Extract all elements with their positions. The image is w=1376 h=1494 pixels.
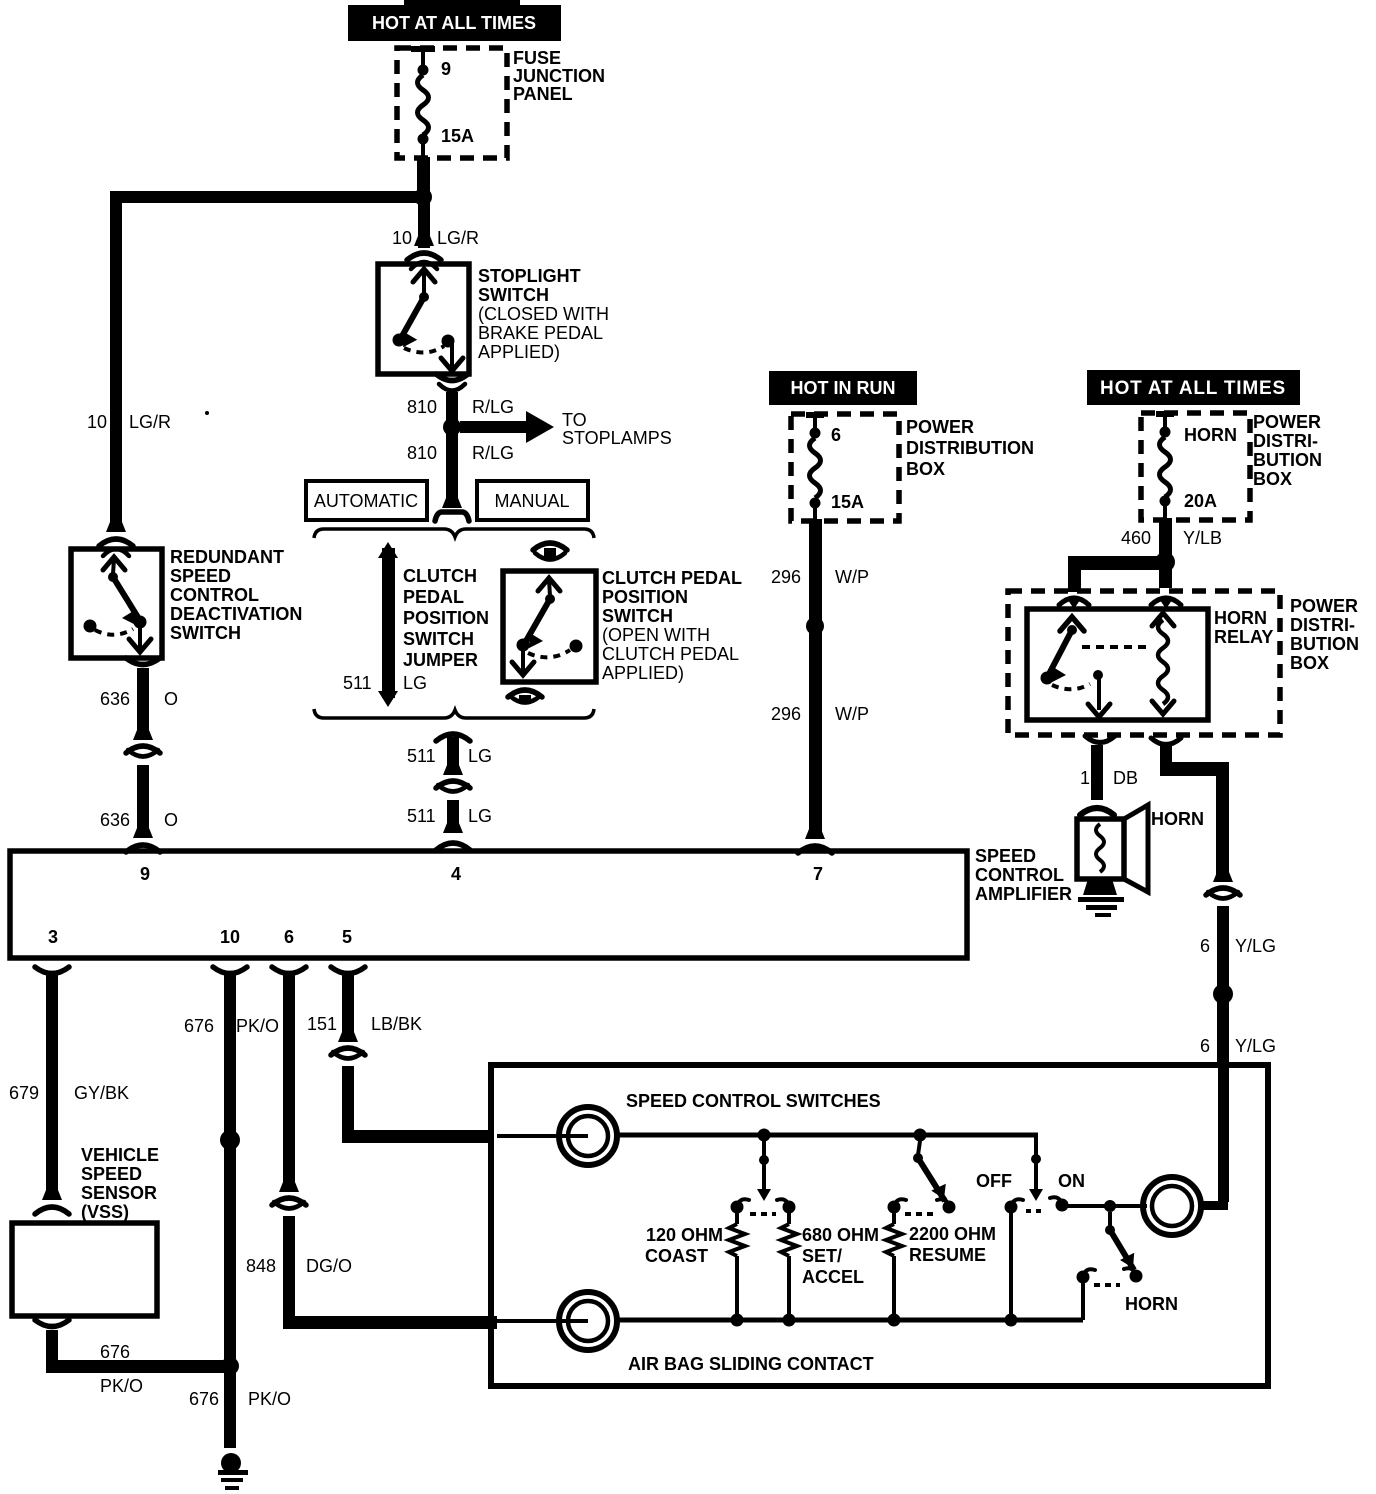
wire 511 LG lower <box>447 800 459 833</box>
svg-text:MANUAL: MANUAL <box>494 491 569 511</box>
svg-text:DISTRI-: DISTRI- <box>1253 431 1318 451</box>
svg-text:848: 848 <box>246 1256 276 1276</box>
connector 810 end <box>442 498 462 508</box>
connector redundant output <box>126 658 160 665</box>
svg-text:PK/O: PK/O <box>248 1389 291 1409</box>
svg-text:LG/R: LG/R <box>437 228 479 248</box>
svg-text:511: 511 <box>407 806 436 826</box>
connector 511 upper <box>436 734 470 741</box>
tag box AUTOMATIC <box>306 481 427 520</box>
svg-text:PEDAL: PEDAL <box>403 587 464 607</box>
bracket lower (transmission merge) <box>314 709 594 718</box>
svg-text:APPLIED): APPLIED) <box>602 663 684 683</box>
svg-text:HORN: HORN <box>1151 809 1204 829</box>
junction node 296 <box>806 617 824 635</box>
svg-text:SWITCH: SWITCH <box>170 623 241 643</box>
resume switch <box>918 1141 920 1155</box>
svg-text:R/LG: R/LG <box>472 443 514 463</box>
wire 810 R/LG lower <box>446 433 458 508</box>
ground G676 <box>221 1453 241 1473</box>
wire 511 LG upper <box>447 737 459 775</box>
svg-text:TO: TO <box>562 410 587 430</box>
svg-text:CLUTCH: CLUTCH <box>403 566 477 586</box>
connector 151 inline pair <box>338 1032 358 1042</box>
banner HOT IN RUN <box>769 371 917 405</box>
connector 296 into amplifier pin 7 <box>805 829 825 839</box>
horn relay box <box>1027 609 1208 720</box>
power distribution box dashed (fuse 6) <box>791 414 899 521</box>
wire 460 into relay right pin <box>1159 566 1172 588</box>
banner HOT AT ALL TIMES (right) <box>1087 370 1300 405</box>
svg-text:15A: 15A <box>441 126 474 146</box>
svg-text:STOPLIGHT: STOPLIGHT <box>478 266 581 286</box>
svg-text:LG: LG <box>468 806 492 826</box>
wire 296 W/P <box>809 519 822 839</box>
svg-text:10: 10 <box>87 412 107 432</box>
svg-text:676: 676 <box>189 1389 219 1409</box>
junction node 810 <box>443 418 461 436</box>
svg-text:6: 6 <box>1200 1036 1210 1056</box>
svg-text:RESUME: RESUME <box>909 1245 986 1265</box>
wire left vertical 10 LG/R <box>110 191 122 532</box>
svg-text:COAST: COAST <box>645 1246 708 1266</box>
svg-text:AMPLIFIER: AMPLIFIER <box>975 884 1072 904</box>
redundant speed control deactivation switch box <box>71 549 162 658</box>
connector stoplight output <box>436 374 468 381</box>
svg-text:BUTION: BUTION <box>1253 450 1322 470</box>
wire 151 LB/BK from pin 5 <box>331 967 365 974</box>
svg-text:3: 3 <box>48 927 58 947</box>
fuse F9 15A symbol <box>411 46 435 52</box>
svg-text:296: 296 <box>771 704 801 724</box>
node coast/set branch <box>758 1129 771 1142</box>
svg-text:636: 636 <box>100 810 130 830</box>
clutch switch contacts <box>538 578 560 591</box>
wire 636 O upper <box>137 668 149 740</box>
horn relay mechanical link <box>1082 645 1152 649</box>
svg-text:BOX: BOX <box>1290 653 1329 673</box>
svg-text:296: 296 <box>771 567 801 587</box>
svg-text:SPEED: SPEED <box>81 1164 142 1184</box>
svg-text:AIR BAG SLIDING CONTACT: AIR BAG SLIDING CONTACT <box>628 1354 874 1374</box>
svg-text:REDUNDANT: REDUNDANT <box>170 547 284 567</box>
wire 676 PK/O from pin 10 <box>213 967 247 974</box>
resistor 2200 ohm resume <box>892 1213 896 1224</box>
wire middle vertical 10 LG/R <box>418 203 430 248</box>
junction node 676 lower <box>221 1357 239 1375</box>
vehicle speed sensor box <box>12 1223 157 1316</box>
svg-text:10: 10 <box>220 927 240 947</box>
stoplight switch box <box>378 264 469 374</box>
horn relay coil <box>1152 613 1174 626</box>
svg-text:DEACTIVATION: DEACTIVATION <box>170 604 302 624</box>
svg-text:SPEED: SPEED <box>170 566 231 586</box>
svg-text:9: 9 <box>140 864 150 884</box>
connector relay output pin 1 <box>1085 736 1115 743</box>
svg-text:(VSS): (VSS) <box>81 1202 129 1222</box>
svg-text:6: 6 <box>831 425 841 445</box>
connector VSS output <box>35 1320 69 1327</box>
svg-text:HOT IN RUN: HOT IN RUN <box>791 378 896 398</box>
svg-text:DB: DB <box>1113 768 1138 788</box>
svg-text:(OPEN WITH: (OPEN WITH <box>602 625 710 645</box>
clutch pedal position switch box <box>503 571 596 682</box>
banner HOT AT ALL TIMES (left) <box>348 5 561 41</box>
wire jog to relay coil-switch feed <box>1068 556 1166 570</box>
svg-text:2200 OHM: 2200 OHM <box>909 1224 996 1244</box>
connector clutch switch output <box>508 690 542 697</box>
connector 511 middle pair <box>443 765 463 775</box>
connector 636 into amplifier pin 9 <box>133 828 153 838</box>
svg-text:810: 810 <box>407 443 437 463</box>
svg-text:636: 636 <box>100 689 130 709</box>
svg-text:POWER: POWER <box>906 417 974 437</box>
svg-text:POSITION: POSITION <box>602 587 688 607</box>
svg-text:LG: LG <box>468 746 492 766</box>
svg-text:LB/BK: LB/BK <box>371 1014 422 1034</box>
wire horizontal to left branch <box>110 191 424 203</box>
svg-text:676: 676 <box>100 1342 130 1362</box>
svg-text:BRAKE PEDAL: BRAKE PEDAL <box>478 323 603 343</box>
svg-text:460: 460 <box>1121 528 1151 548</box>
svg-text:SWITCH: SWITCH <box>478 285 549 305</box>
node resistor bottoms <box>731 1314 744 1327</box>
svg-text:LG: LG <box>403 673 427 693</box>
svg-text:OFF: OFF <box>976 1171 1012 1191</box>
svg-text:HORN: HORN <box>1214 608 1267 628</box>
svg-text:CLUTCH PEDAL: CLUTCH PEDAL <box>602 568 742 588</box>
wire off-contact drop <box>1009 1213 1013 1320</box>
svg-text:PK/O: PK/O <box>100 1376 143 1396</box>
sliding contact feed wire <box>497 1134 566 1138</box>
connector clutch switch input <box>533 543 567 550</box>
horn switch <box>1108 1212 1112 1227</box>
svg-text:DISTRIBUTION: DISTRIBUTION <box>906 438 1034 458</box>
svg-text:SET/: SET/ <box>802 1246 842 1266</box>
svg-text:120 OHM: 120 OHM <box>646 1225 723 1245</box>
arrow to stoplamps <box>460 421 526 433</box>
svg-text:POWER: POWER <box>1253 412 1321 432</box>
stoplight switch contacts <box>413 269 435 282</box>
svg-text:JUMPER: JUMPER <box>403 650 478 670</box>
horn speaker <box>1077 819 1124 879</box>
wire 676 PK/O from VSS <box>46 1330 58 1364</box>
wire 6 Y/LG <box>1217 906 1229 1066</box>
node resume branch <box>914 1129 927 1142</box>
svg-text:Y/LG: Y/LG <box>1235 1036 1276 1056</box>
svg-text:9: 9 <box>441 59 451 79</box>
wire 848 DG/O into switches box <box>283 1216 295 1329</box>
svg-text:O: O <box>164 689 178 709</box>
svg-text:HOT AT ALL TIMES: HOT AT ALL TIMES <box>372 13 536 33</box>
speed control switches / air bag sliding contact box <box>491 1065 1268 1386</box>
svg-text:BOX: BOX <box>1253 469 1292 489</box>
svg-text:SPEED: SPEED <box>975 846 1036 866</box>
svg-text:Y/LG: Y/LG <box>1235 936 1276 956</box>
svg-text:PK/O: PK/O <box>236 1016 279 1036</box>
svg-text:810: 810 <box>407 397 437 417</box>
svg-text:4: 4 <box>451 864 461 884</box>
air bag sliding contact bus wire <box>614 1318 1083 1323</box>
junction node 6 Y/LG <box>1213 984 1233 1004</box>
svg-text:JUNCTION: JUNCTION <box>513 66 605 86</box>
svg-text:10: 10 <box>392 228 412 248</box>
svg-text:STOPLAMPS: STOPLAMPS <box>562 428 672 448</box>
fuse HORN 20A symbol <box>1156 411 1174 417</box>
connector 6 Y/LG inline pair <box>1213 872 1233 882</box>
junction node 460 <box>1155 552 1175 572</box>
wire 810 R/LG upper <box>446 392 458 423</box>
svg-text:676: 676 <box>184 1016 214 1036</box>
wire 1 DB <box>1091 745 1103 800</box>
svg-text:W/P: W/P <box>835 567 869 587</box>
svg-text:CONTROL: CONTROL <box>170 585 259 605</box>
svg-text:FUSE: FUSE <box>513 48 561 68</box>
svg-text:679: 679 <box>9 1083 39 1103</box>
node horn switch branch <box>1104 1200 1116 1212</box>
svg-text:APPLIED): APPLIED) <box>478 342 560 362</box>
svg-text:SWITCH: SWITCH <box>403 629 474 649</box>
svg-text:Y/LB: Y/LB <box>1183 528 1222 548</box>
svg-text:AUTOMATIC: AUTOMATIC <box>314 491 418 511</box>
wire 151 into switches box <box>342 1066 354 1136</box>
fuse junction panel dashed box <box>397 48 507 158</box>
svg-text:HOT AT ALL TIMES: HOT AT ALL TIMES <box>1100 378 1286 399</box>
svg-text:W/P: W/P <box>835 704 869 724</box>
wire 848 DG/O from pin 6 <box>272 967 306 974</box>
svg-text:VEHICLE: VEHICLE <box>81 1145 159 1165</box>
svg-text:LG/R: LG/R <box>129 412 171 432</box>
svg-text:BOX: BOX <box>906 459 945 479</box>
resistor 120 ohm coast <box>735 1213 739 1224</box>
wire 636 O lower <box>137 765 149 838</box>
horn relay switch <box>1060 617 1084 631</box>
svg-text:20A: 20A <box>1184 491 1217 511</box>
svg-text:15A: 15A <box>831 492 864 512</box>
horn ground <box>1078 897 1124 902</box>
svg-text:HORN: HORN <box>1125 1294 1178 1314</box>
fuse F6 15A symbol <box>806 412 824 418</box>
svg-text:6: 6 <box>1200 936 1210 956</box>
connector relay coil ground pin <box>1151 738 1181 745</box>
connector 636 inline pair <box>133 730 153 740</box>
set/coast switch <box>762 1141 766 1156</box>
svg-text:680 OHM: 680 OHM <box>802 1225 879 1245</box>
svg-text:DISTRI-: DISTRI- <box>1290 615 1355 635</box>
scan artifact bar top <box>404 0 520 5</box>
wire relay to horn switch feed <box>1160 745 1172 771</box>
svg-text:BUTION: BUTION <box>1290 634 1359 654</box>
speed control amplifier box <box>10 851 967 958</box>
bracket upper (transmission split) <box>314 529 594 538</box>
svg-text:SPEED CONTROL SWITCHES: SPEED CONTROL SWITCHES <box>626 1091 881 1111</box>
wire 679 GY/BK from pin 3 <box>35 967 69 974</box>
svg-text:1: 1 <box>1080 768 1090 788</box>
sliding contact ring (bottom) <box>559 1292 617 1350</box>
svg-text:7: 7 <box>813 864 823 884</box>
wire 6 Y/LG inside box <box>1218 1065 1229 1202</box>
connector horn <box>1080 808 1114 815</box>
svg-text:151: 151 <box>307 1014 337 1034</box>
wire 460 Y/LB <box>1159 518 1172 566</box>
svg-text:511: 511 <box>343 673 372 693</box>
power distribution box dashed (horn relay) <box>1008 591 1280 735</box>
svg-text:RELAY: RELAY <box>1214 627 1273 647</box>
resistor 680 ohm set/accel <box>787 1213 791 1224</box>
tag box MANUAL <box>477 481 588 520</box>
svg-text:5: 5 <box>342 927 352 947</box>
off/on switch <box>1034 1135 1038 1156</box>
connector into redundant switch <box>106 522 126 532</box>
switch feed bus wire <box>614 1133 1038 1138</box>
svg-text:PANEL: PANEL <box>513 84 573 104</box>
junction node below fuse <box>414 188 432 206</box>
connector relay pin (coil feed) <box>1151 598 1181 605</box>
svg-text:POWER: POWER <box>1290 596 1358 616</box>
svg-text:CONTROL: CONTROL <box>975 865 1064 885</box>
svg-text:O: O <box>164 810 178 830</box>
svg-text:CLUTCH PEDAL: CLUTCH PEDAL <box>602 644 739 664</box>
sliding contact ring (top) <box>559 1107 617 1165</box>
connector relay pin (switch feed) <box>1059 598 1089 605</box>
junction node 676 upper <box>220 1130 240 1150</box>
svg-text:GY/BK: GY/BK <box>74 1083 129 1103</box>
svg-text:HORN: HORN <box>1184 425 1237 445</box>
power distribution box dashed (horn fuse) <box>1141 413 1250 520</box>
sliding contact ring (right) <box>1143 1177 1201 1235</box>
svg-text:DG/O: DG/O <box>306 1256 352 1276</box>
clutch pedal position switch jumper wire 511 LG <box>378 542 398 558</box>
svg-text:ACCEL: ACCEL <box>802 1267 864 1287</box>
svg-text:POSITION: POSITION <box>403 608 489 628</box>
svg-text:ON: ON <box>1058 1171 1085 1191</box>
svg-text:R/LG: R/LG <box>472 397 514 417</box>
connector into VSS <box>42 1190 62 1200</box>
connector into stoplight switch <box>414 236 434 246</box>
svg-text:SWITCH: SWITCH <box>602 606 673 626</box>
redundant switch contacts <box>103 557 125 570</box>
connector 511 into amplifier pin 4 <box>443 823 463 833</box>
svg-text:511: 511 <box>407 746 436 766</box>
wire fuse output stub <box>417 157 430 197</box>
svg-text:(CLOSED WITH: (CLOSED WITH <box>478 304 609 324</box>
svg-text:SENSOR: SENSOR <box>81 1183 157 1203</box>
connector 848 inline pair <box>279 1182 299 1192</box>
noise dot <box>205 411 209 415</box>
svg-text:6: 6 <box>284 927 294 947</box>
wire on-contact to ring <box>1062 1204 1147 1208</box>
